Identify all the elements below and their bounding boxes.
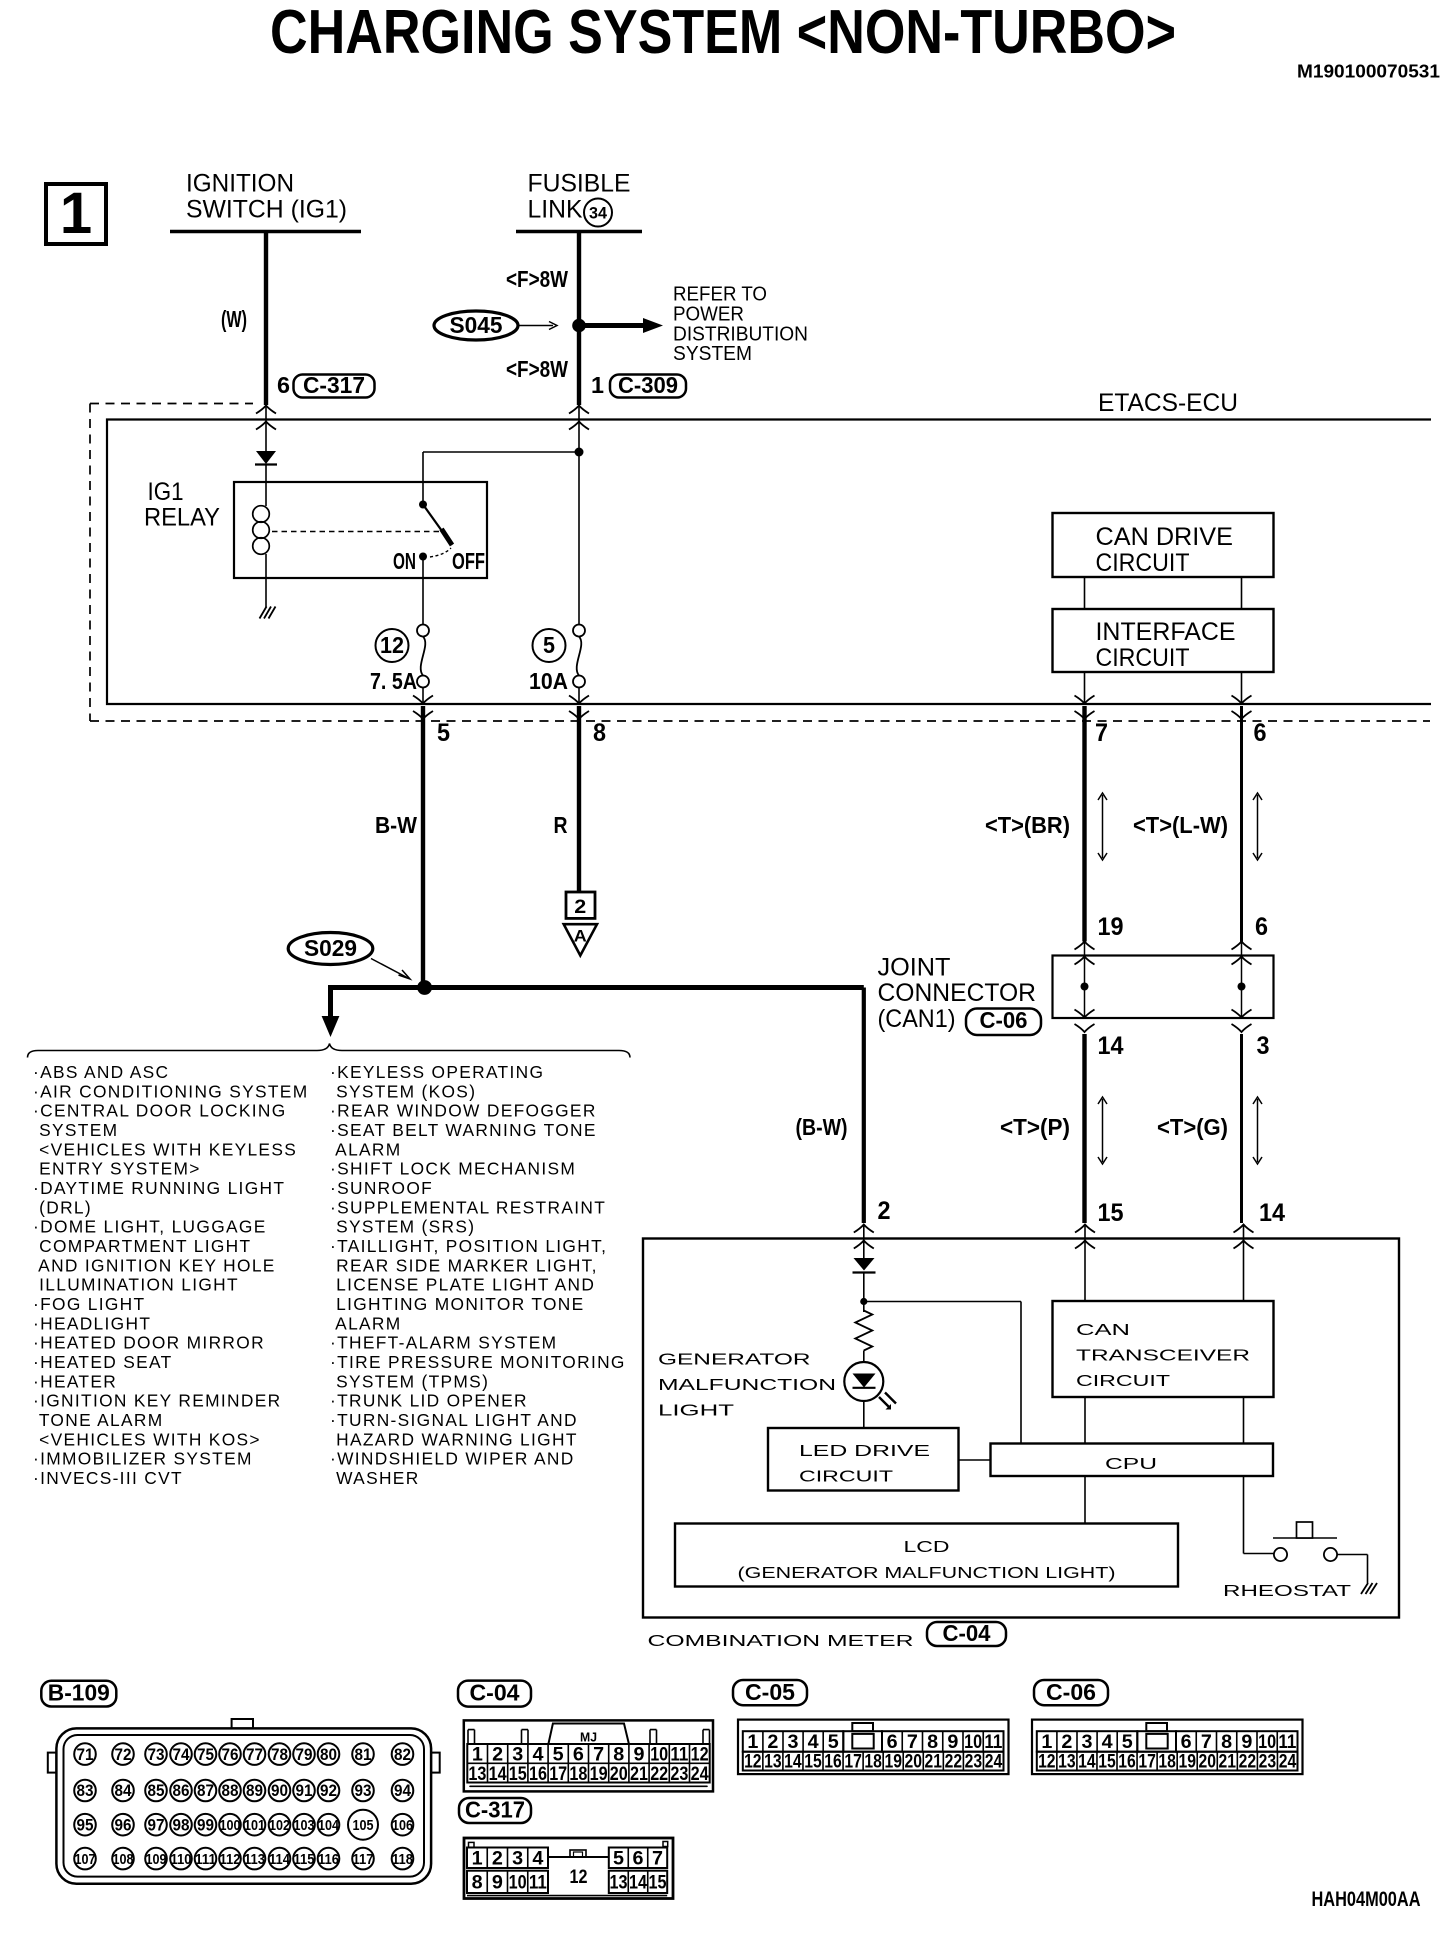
svg-text:CONNECTOR: CONNECTOR (878, 979, 1037, 1007)
pin 79 (293, 1743, 315, 1765)
svg-text:·TURN-SIGNAL LIGHT AND: ·TURN-SIGNAL LIGHT AND (330, 1410, 578, 1430)
wire B-W down to meter pin 2 (862, 988, 866, 1224)
svg-text:17: 17 (1138, 1751, 1156, 1773)
svg-text:·SUNROOF: ·SUNROOF (330, 1178, 433, 1198)
pin 104 (318, 1814, 340, 1836)
ignition switch bus bar (170, 230, 361, 234)
pin 113 (244, 1848, 266, 1870)
wire fuse 5 to pin 8 (578, 688, 580, 704)
svg-text:10A: 10A (529, 668, 568, 694)
pin 108 (112, 1848, 134, 1870)
B-109 top tab (232, 1719, 253, 1728)
svg-text:·WINDSHIELD WIPER AND: ·WINDSHIELD WIPER AND (330, 1449, 575, 1469)
svg-text:75: 75 (197, 1745, 214, 1764)
svg-text:2: 2 (574, 896, 586, 918)
svg-text:IGNITION: IGNITION (186, 170, 294, 198)
pin 98 (170, 1814, 192, 1836)
svg-text:·KEYLESS OPERATING: ·KEYLESS OPERATING (330, 1062, 544, 1082)
wire pin 2 into meter (863, 1225, 865, 1259)
node dot right (1238, 983, 1246, 991)
svg-text:83: 83 (77, 1781, 94, 1800)
svg-text:·CENTRAL DOOR LOCKING: ·CENTRAL DOOR LOCKING (33, 1101, 287, 1121)
svg-text:C-05: C-05 (745, 1679, 795, 1705)
svg-text:<F>8W: <F>8W (506, 356, 568, 382)
svg-text:103: 103 (294, 1817, 315, 1834)
wire B-W from pin 5 to splice S029 (421, 706, 425, 988)
svg-text:<T>(P): <T>(P) (1000, 1114, 1070, 1140)
pin 102 (269, 1814, 291, 1836)
svg-text:CPU: CPU (1105, 1456, 1157, 1473)
C-317 middle section pin 12 (548, 1856, 609, 1858)
C-04 pin grid (467, 1744, 709, 1783)
pin 89 (244, 1780, 266, 1802)
svg-text:73: 73 (148, 1745, 165, 1764)
wire CAN-H ECU pin 7 to joint connector pin 19 (1082, 706, 1086, 942)
node dot left (1081, 983, 1089, 991)
svg-text:93: 93 (355, 1781, 372, 1800)
pin 91 (293, 1780, 315, 1802)
svg-text:·HEADLIGHT: ·HEADLIGHT (33, 1313, 151, 1333)
svg-text:·REAR WINDOW DEFOGGER: ·REAR WINDOW DEFOGGER (330, 1101, 597, 1121)
pin 72 (112, 1743, 134, 1765)
svg-text:16: 16 (824, 1751, 842, 1773)
svg-text:115: 115 (294, 1851, 315, 1868)
svg-text:106: 106 (392, 1817, 413, 1834)
svg-text:CIRCUIT: CIRCUIT (1076, 1373, 1170, 1390)
LED light rays (879, 1393, 896, 1409)
pin 82 (392, 1743, 414, 1765)
pin 103 (293, 1814, 315, 1836)
svg-text:8: 8 (472, 1872, 483, 1894)
pin 106 (392, 1814, 414, 1836)
svg-text:19: 19 (1098, 913, 1124, 941)
svg-text:14: 14 (1098, 1032, 1124, 1060)
svg-text:(DRL): (DRL) (33, 1197, 92, 1217)
svg-text:98: 98 (173, 1815, 190, 1834)
svg-text:108: 108 (113, 1851, 134, 1868)
pin 74 (170, 1743, 192, 1765)
svg-text:13: 13 (764, 1751, 782, 1773)
LCD box (675, 1524, 1178, 1587)
svg-text:AND IGNITION KEY HOLE: AND IGNITION KEY HOLE (33, 1255, 276, 1275)
svg-text:77: 77 (246, 1745, 263, 1764)
svg-text:CIRCUIT: CIRCUIT (1096, 549, 1190, 577)
svg-text:3: 3 (1257, 1032, 1270, 1060)
svg-text:·HEATER: ·HEATER (33, 1371, 117, 1391)
relay switch ON contact (419, 553, 427, 561)
svg-text:·AIR CONDITIONING SYSTEM: ·AIR CONDITIONING SYSTEM (33, 1081, 308, 1101)
svg-text:9: 9 (492, 1872, 503, 1894)
leader arrow from S029 to junction (371, 959, 407, 978)
pin 114 (269, 1848, 291, 1870)
svg-text:19: 19 (590, 1763, 608, 1785)
svg-text:2: 2 (878, 1197, 891, 1225)
svg-text:CHARGING SYSTEM <NON-TURBO>: CHARGING SYSTEM <NON-TURBO> (270, 0, 1176, 67)
svg-text:21: 21 (925, 1751, 943, 1773)
svg-text:20: 20 (610, 1763, 628, 1785)
wires interface circuit to ECU pins 7 and 6 (1084, 672, 1086, 704)
wire CAN-L ECU pin 6 to joint connector pin 6 (1240, 706, 1243, 942)
svg-text:(W): (W) (221, 306, 247, 332)
node junction on fusible link wire (572, 319, 586, 333)
joint connector exit chevrons right (1232, 1010, 1252, 1018)
svg-text:81: 81 (355, 1745, 372, 1764)
svg-text:22: 22 (945, 1751, 963, 1773)
svg-text:·TAILLIGHT, POSITION LIGHT,: ·TAILLIGHT, POSITION LIGHT, (330, 1236, 607, 1256)
wire through joint connector right (1241, 942, 1243, 1018)
C-317 corner notches (469, 1842, 475, 1847)
svg-text:14: 14 (1259, 1199, 1285, 1227)
brace over system list (28, 1044, 631, 1058)
svg-text:23: 23 (1259, 1751, 1277, 1773)
svg-text:LINK: LINK (528, 196, 583, 224)
svg-text:·THEFT-ALARM SYSTEM: ·THEFT-ALARM SYSTEM (330, 1333, 557, 1353)
pin 78 (269, 1743, 291, 1765)
svg-text:24: 24 (1279, 1751, 1297, 1773)
svg-text:24: 24 (985, 1751, 1003, 1773)
svg-text:LIGHT: LIGHT (658, 1403, 734, 1420)
exit chevrons ECU pin 6 (1232, 696, 1252, 704)
svg-text:76: 76 (222, 1745, 239, 1764)
C-317 left pin block (467, 1848, 548, 1869)
exit chevrons ECU pin 7 (1075, 696, 1095, 704)
svg-text:11: 11 (529, 1872, 547, 1894)
svg-text:SYSTEM (SRS): SYSTEM (SRS) (330, 1217, 475, 1237)
C-317 bottom line (467, 1895, 667, 1897)
svg-text:13: 13 (468, 1763, 486, 1785)
svg-text:·FOG LIGHT: ·FOG LIGHT (33, 1294, 145, 1314)
svg-text:90: 90 (271, 1781, 288, 1800)
CAN drive circuit box (1053, 513, 1274, 577)
svg-text:R: R (554, 812, 568, 838)
joint connector entry chevrons pin 19 (1075, 942, 1095, 950)
svg-text:C-04: C-04 (470, 1680, 520, 1706)
wires inside combination meter (pass-through verticals) (1084, 1224, 1086, 1524)
svg-text:SYSTEM: SYSTEM (673, 342, 752, 365)
svg-text:LCD: LCD (904, 1539, 950, 1556)
svg-text:23: 23 (965, 1751, 983, 1773)
svg-text:JOINT: JOINT (878, 954, 951, 982)
svg-text:15: 15 (1098, 1751, 1116, 1773)
pin 93 (352, 1780, 374, 1802)
svg-text:C-309: C-309 (618, 372, 678, 398)
pin 107 (74, 1848, 96, 1870)
fusible link number 34 circled (584, 199, 612, 227)
svg-text:87: 87 (197, 1781, 214, 1800)
pin 80 (318, 1743, 340, 1765)
svg-text:118: 118 (392, 1851, 413, 1868)
svg-text:18: 18 (569, 1763, 587, 1785)
svg-text:102: 102 (269, 1817, 290, 1834)
svg-text:15: 15 (804, 1751, 822, 1773)
joint connector (CAN1) box C-06 (1053, 956, 1274, 1019)
connector view C-05 label (733, 1680, 807, 1705)
svg-text:14: 14 (629, 1872, 647, 1894)
svg-text:FUSIBLE: FUSIBLE (528, 170, 631, 198)
svg-text:104: 104 (318, 1817, 340, 1834)
connector label C-06 (966, 1009, 1041, 1036)
wire relay common to fusible link wire (422, 452, 424, 505)
svg-text:2: 2 (492, 1848, 503, 1870)
svg-text:<T>(L-W): <T>(L-W) (1133, 812, 1228, 838)
svg-text:LED DRIVE: LED DRIVE (799, 1443, 930, 1460)
dashed arc to OFF position (430, 548, 451, 557)
twisted pair arrow right lower (1257, 1099, 1259, 1162)
svg-text:34: 34 (589, 204, 608, 223)
svg-text:·TRUNK LID OPENER: ·TRUNK LID OPENER (330, 1391, 528, 1411)
svg-text:110: 110 (171, 1851, 192, 1868)
svg-text:HAH04M00AA: HAH04M00AA (1312, 1888, 1421, 1911)
svg-text:ON: ON (393, 548, 416, 574)
CAN transceiver circuit box (1053, 1301, 1274, 1397)
CPU box (991, 1444, 1274, 1477)
meter entry chevrons pin 14 (1234, 1225, 1254, 1233)
C-06 keyway (1146, 1734, 1167, 1749)
svg-text:5: 5 (613, 1848, 624, 1870)
exit chevrons ECU pin 8 (569, 696, 589, 704)
svg-text:71: 71 (77, 1745, 94, 1764)
wire relay ON contact to fuse 12 (422, 557, 424, 631)
svg-text:COMPARTMENT LIGHT: COMPARTMENT LIGHT (33, 1236, 251, 1256)
svg-text:CIRCUIT: CIRCUIT (799, 1469, 893, 1486)
svg-text:21: 21 (630, 1763, 648, 1785)
svg-text:CAN: CAN (1076, 1322, 1130, 1339)
pin 94 (392, 1780, 414, 1802)
resistor (855, 1311, 872, 1351)
svg-text:OFF: OFF (452, 548, 485, 574)
svg-text:S045: S045 (450, 312, 503, 338)
svg-text:6: 6 (1254, 719, 1267, 747)
svg-text:C-06: C-06 (980, 1007, 1028, 1033)
wire fusible link to C-309 pin 1 (577, 232, 581, 406)
C-04 MJ block (549, 1724, 629, 1744)
svg-text:24: 24 (691, 1763, 709, 1785)
connector label C-04 by caption (927, 1622, 1006, 1646)
interface circuit box (1053, 609, 1274, 672)
fuse 5 (10A) (573, 625, 585, 637)
svg-text:·SUPPLEMENTAL RESTRAINT: ·SUPPLEMENTAL RESTRAINT (330, 1197, 606, 1217)
combination meter box (643, 1239, 1399, 1618)
svg-text:17: 17 (549, 1763, 567, 1785)
svg-text:22: 22 (1239, 1751, 1257, 1773)
pin 83 (74, 1780, 96, 1802)
ground at rheostat (1361, 1583, 1377, 1594)
pin 81 (352, 1743, 374, 1765)
C-05 keyway (852, 1734, 873, 1749)
svg-text:101: 101 (244, 1817, 265, 1834)
connector label C-317 (294, 375, 375, 398)
splice S045 (434, 311, 518, 340)
svg-text:10: 10 (509, 1872, 527, 1894)
relay switch blade (423, 505, 452, 546)
connector label C-309 (610, 375, 686, 398)
connector view C-04 body (464, 1720, 713, 1791)
svg-text:RELAY: RELAY (144, 504, 220, 532)
svg-text:107: 107 (75, 1851, 96, 1868)
pin 105 (348, 1810, 378, 1840)
svg-text:80: 80 (320, 1745, 337, 1764)
relay coil (265, 482, 267, 506)
svg-text:15: 15 (648, 1872, 666, 1894)
wire fuse 12 to pin 5 (422, 688, 424, 704)
svg-text:COMBINATION METER: COMBINATION METER (648, 1633, 914, 1650)
svg-text:94: 94 (394, 1781, 411, 1800)
wire joint connector 3 to meter pin 14 (1240, 1034, 1243, 1223)
pin 97 (145, 1814, 167, 1836)
connector view B-109 label (41, 1681, 116, 1707)
svg-text:12: 12 (570, 1866, 588, 1888)
node junction S029 (417, 980, 432, 995)
svg-text:CIRCUIT: CIRCUIT (1096, 644, 1190, 672)
svg-text:C-04: C-04 (943, 1620, 991, 1646)
svg-text:89: 89 (246, 1781, 263, 1800)
svg-text:14: 14 (784, 1751, 802, 1773)
svg-text:·SHIFT LOCK MECHANISM: ·SHIFT LOCK MECHANISM (330, 1159, 576, 1179)
svg-text:HAZARD WARNING LIGHT: HAZARD WARNING LIGHT (330, 1429, 578, 1449)
svg-text:117: 117 (353, 1851, 374, 1868)
svg-text:ALARM: ALARM (330, 1313, 402, 1333)
thick arrow to power distribution system (579, 323, 644, 328)
svg-text:7. 5A: 7. 5A (370, 668, 417, 694)
svg-text:LICENSE PLATE LIGHT AND: LICENSE PLATE LIGHT AND (330, 1275, 595, 1295)
dashed actuation link coil to switch (272, 531, 440, 533)
wire branch to CPU (864, 1301, 1021, 1303)
diode in meter (854, 1258, 875, 1271)
wire B-W horizontal run to combination meter (328, 985, 864, 990)
connector view C-317 body (464, 1838, 673, 1899)
svg-text:12: 12 (1038, 1751, 1056, 1773)
svg-text:·SEAT BELT WARNING TONE: ·SEAT BELT WARNING TONE (330, 1120, 597, 1140)
svg-text:15: 15 (509, 1763, 527, 1785)
twisted pair arrow right upper (1257, 795, 1259, 858)
svg-text:78: 78 (271, 1745, 288, 1764)
section number 1 (46, 184, 106, 244)
svg-text:<VEHICLES WITH KEYLESS: <VEHICLES WITH KEYLESS (33, 1139, 297, 1159)
svg-text:6: 6 (277, 372, 290, 398)
svg-text:20: 20 (905, 1751, 923, 1773)
svg-text:95: 95 (77, 1815, 94, 1834)
ETACS-ECU inner box (107, 420, 1431, 705)
svg-text:C-317: C-317 (303, 372, 365, 398)
svg-text:M190100070531: M190100070531 (1297, 61, 1440, 82)
svg-text:REAR SIDE MARKER LIGHT,: REAR SIDE MARKER LIGHT, (330, 1255, 598, 1275)
svg-text:13: 13 (1058, 1751, 1076, 1773)
svg-text:(GENERATOR MALFUNCTION LIGHT): (GENERATOR MALFUNCTION LIGHT) (738, 1565, 1116, 1582)
connector view C-06 label (1034, 1680, 1108, 1705)
connector view C-317 label (459, 1798, 531, 1823)
svg-text:18: 18 (864, 1751, 882, 1773)
svg-text:ILLUMINATION LIGHT: ILLUMINATION LIGHT (33, 1275, 239, 1295)
svg-text:20: 20 (1199, 1751, 1217, 1773)
svg-text:ETACS-ECU: ETACS-ECU (1098, 389, 1238, 417)
svg-text:MJ: MJ (580, 1731, 597, 1745)
svg-text:5: 5 (437, 719, 450, 747)
connector view B-109 body (56, 1728, 431, 1883)
svg-text:14: 14 (489, 1763, 507, 1785)
pin 100 (219, 1814, 241, 1836)
svg-text:<T>(BR): <T>(BR) (985, 812, 1070, 838)
meter entry chevrons pin 15 (1075, 1225, 1095, 1233)
svg-text:LIGHTING MONITOR TONE: LIGHTING MONITOR TONE (330, 1294, 585, 1314)
svg-text:IG1: IG1 (148, 478, 184, 506)
node junction on wire from C-309 (575, 448, 584, 457)
svg-text:·DOME LIGHT, LUGGAGE: ·DOME LIGHT, LUGGAGE (33, 1217, 267, 1237)
svg-text:ALARM: ALARM (330, 1139, 402, 1159)
svg-text:12: 12 (744, 1751, 762, 1773)
twisted pair arrow left lower (1102, 1099, 1104, 1162)
svg-text:CAN DRIVE: CAN DRIVE (1096, 523, 1234, 551)
pin 87 (195, 1780, 217, 1802)
pin 75 (195, 1743, 217, 1765)
wire R from pin 8 (577, 706, 581, 891)
pin 84 (112, 1780, 134, 1802)
svg-text:113: 113 (244, 1851, 265, 1868)
connector view C-05 body (738, 1720, 1009, 1775)
pin 111 (195, 1848, 217, 1870)
svg-text:4: 4 (532, 1848, 543, 1870)
wire LED drive circuit to CPU (959, 1459, 991, 1461)
svg-text:18: 18 (1158, 1751, 1176, 1773)
svg-text:S029: S029 (304, 935, 357, 961)
joint connector entry chevrons pin 6 (1232, 942, 1252, 950)
svg-text:86: 86 (173, 1781, 190, 1800)
svg-text:12: 12 (380, 632, 404, 658)
svg-text:GENERATOR: GENERATOR (658, 1352, 811, 1369)
LED generator malfunction light (844, 1362, 883, 1401)
svg-text:6: 6 (633, 1848, 644, 1870)
pin 118 (392, 1848, 414, 1870)
fusible link bus bar (516, 230, 642, 234)
pin 92 (318, 1780, 340, 1802)
svg-text:(CAN1): (CAN1) (878, 1005, 956, 1033)
svg-text:19: 19 (884, 1751, 902, 1773)
leader arrow from S045 to node (519, 325, 553, 327)
wire from C-309 entry to fuse 5 (578, 406, 580, 631)
svg-text:22: 22 (650, 1763, 668, 1785)
connector view C-04 label (458, 1681, 531, 1707)
fuse number 5 circled (533, 629, 566, 662)
svg-text:A: A (574, 927, 587, 946)
svg-text:8: 8 (593, 719, 606, 747)
joint connector exit chevrons left (1075, 1010, 1095, 1018)
svg-text:16: 16 (529, 1763, 547, 1785)
svg-text:<F>8W: <F>8W (506, 266, 568, 292)
svg-text:72: 72 (115, 1745, 132, 1764)
pin 112 (219, 1848, 241, 1870)
diode above IG1 relay coil (256, 451, 276, 464)
svg-text:<T>(G): <T>(G) (1157, 1114, 1228, 1140)
svg-text:SYSTEM (TPMS): SYSTEM (TPMS) (330, 1371, 489, 1391)
svg-text:·HEATED DOOR MIRROR: ·HEATED DOOR MIRROR (33, 1333, 265, 1353)
pin 110 (170, 1848, 192, 1870)
svg-text:RHEOSTAT: RHEOSTAT (1223, 1583, 1351, 1600)
svg-text:<VEHICLES WITH KOS>: <VEHICLES WITH KOS> (33, 1429, 261, 1449)
svg-text:·TIRE PRESSURE MONITORING: ·TIRE PRESSURE MONITORING (330, 1352, 626, 1372)
svg-text:·DAYTIME RUNNING LIGHT: ·DAYTIME RUNNING LIGHT (33, 1178, 285, 1198)
svg-text:19: 19 (1178, 1751, 1196, 1773)
svg-text:TONE ALARM: TONE ALARM (33, 1410, 164, 1430)
wire LED to LED drive circuit (863, 1401, 865, 1428)
svg-text:74: 74 (173, 1745, 190, 1764)
pin 95 (74, 1814, 96, 1836)
fuse number 12 circled (376, 629, 409, 662)
svg-text:·INVECS-III CVT: ·INVECS-III CVT (33, 1468, 183, 1488)
LED drive circuit box (768, 1428, 959, 1491)
svg-text:·HEATED SEAT: ·HEATED SEAT (33, 1352, 173, 1372)
svg-text:109: 109 (146, 1851, 167, 1868)
svg-text:13: 13 (610, 1872, 628, 1894)
svg-text:1: 1 (472, 1848, 483, 1870)
